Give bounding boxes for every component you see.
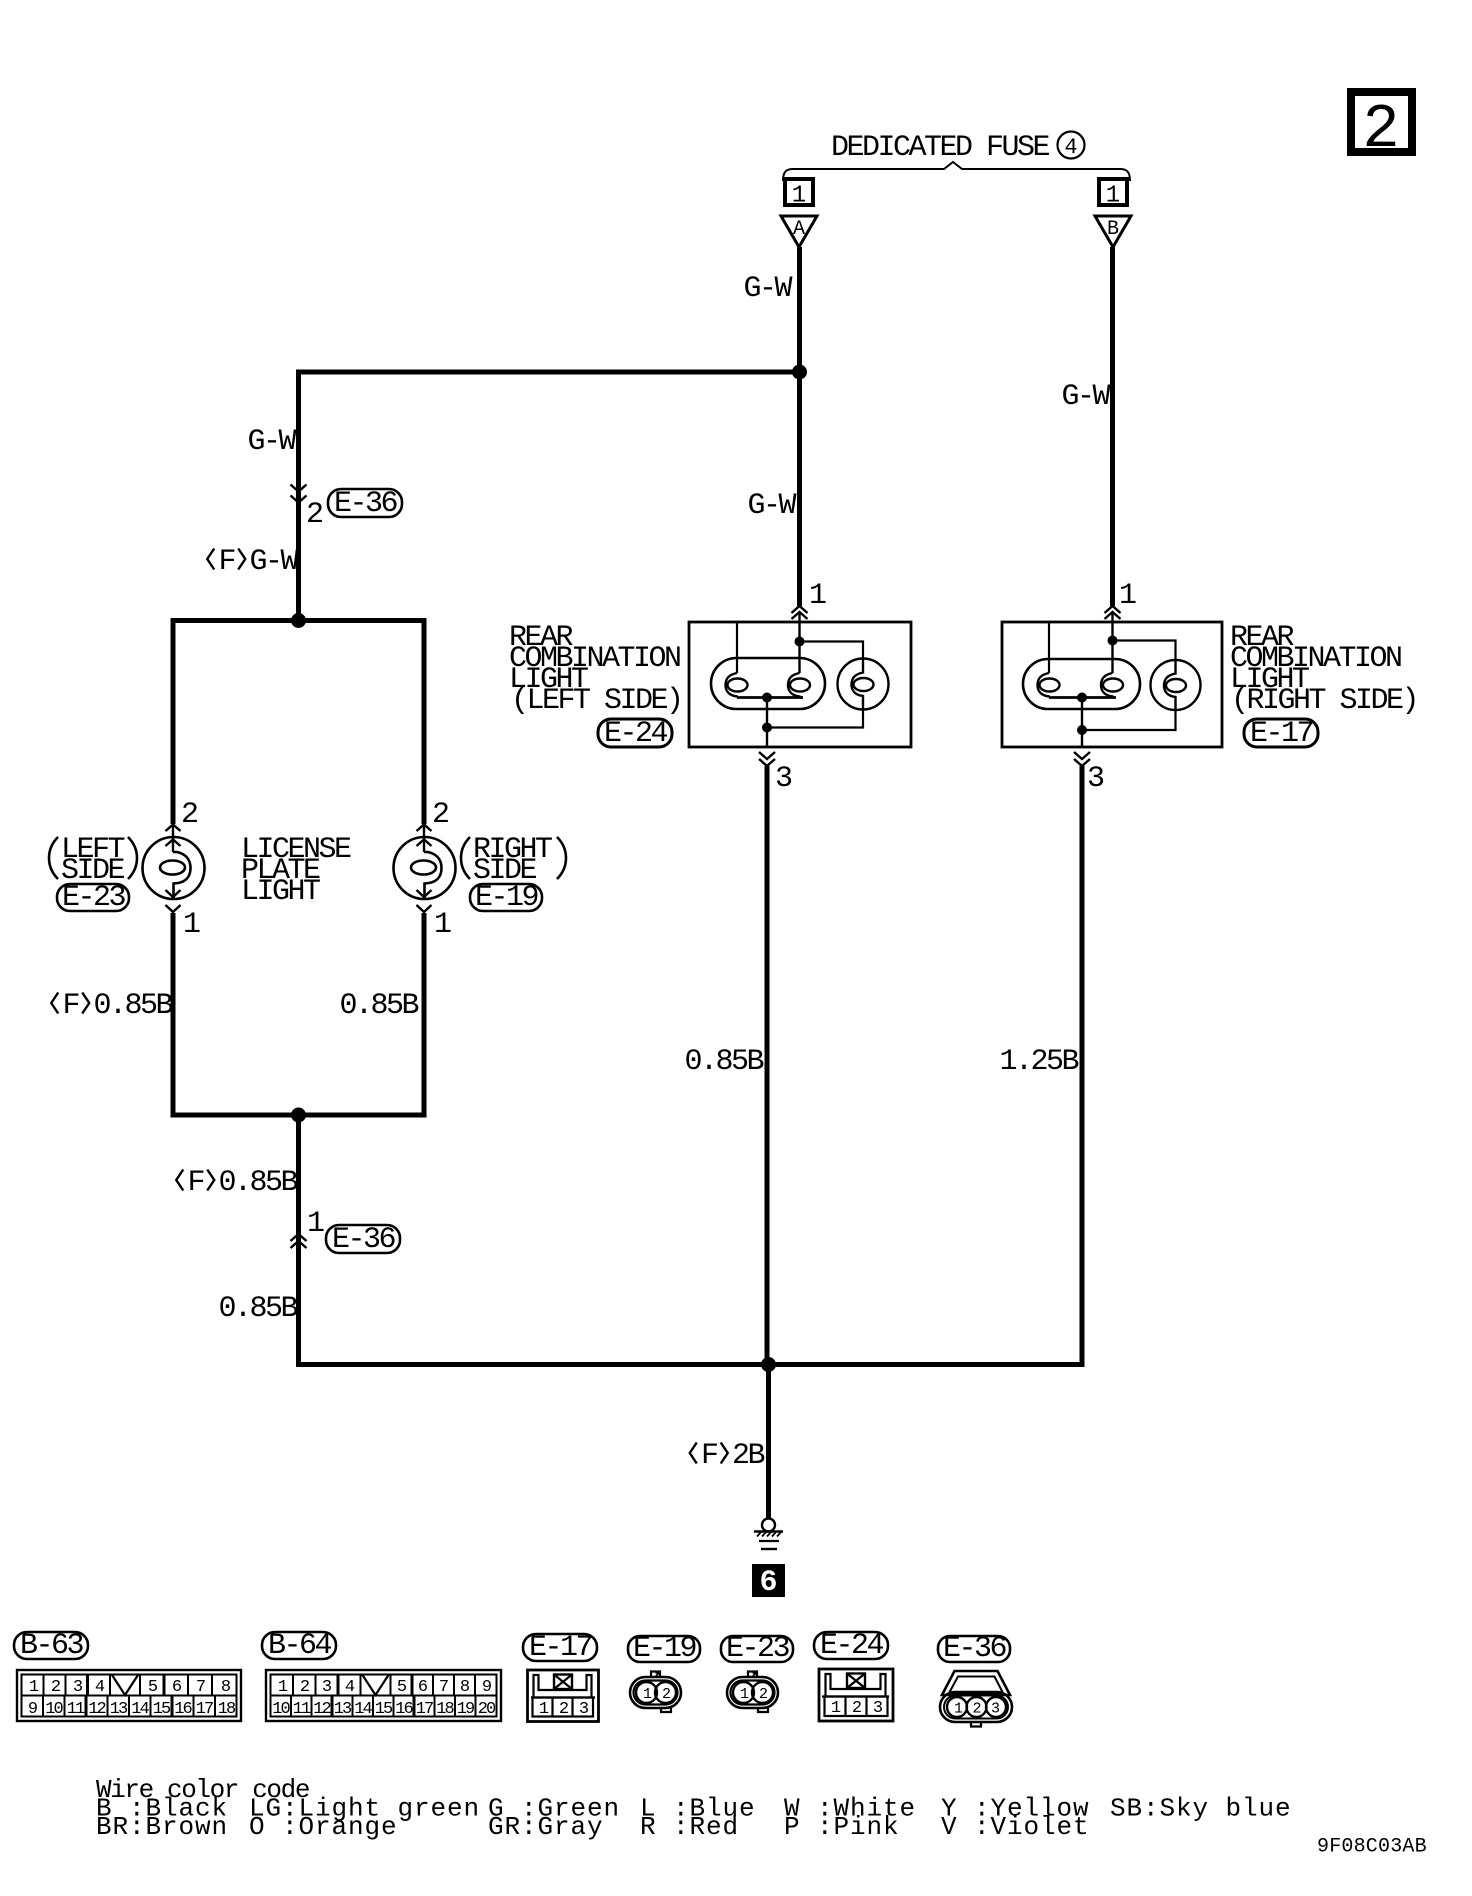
pin numbers B-64 row 2 xyxy=(272,1700,496,1719)
pin numbers E-17 body xyxy=(539,1700,589,1719)
svg-text:1: 1 xyxy=(434,908,451,942)
svg-text:16: 16 xyxy=(395,1700,413,1719)
svg-text:E-17: E-17 xyxy=(529,1631,592,1665)
svg-text:20: 20 xyxy=(478,1700,496,1719)
node junction loop bottom xyxy=(291,1108,306,1123)
svg-text:G-W: G-W xyxy=(1061,380,1110,414)
wire 0.85B rear left to bus xyxy=(765,766,770,1364)
fuse tap B terminal box 1 xyxy=(1099,179,1127,210)
wire label (F)0.85B left xyxy=(47,989,173,1023)
wire ground drop 2B xyxy=(766,1365,771,1520)
svg-text:2: 2 xyxy=(51,1678,60,1697)
label REAR COMBINATION LIGHT (LEFT SIDE) xyxy=(509,621,682,718)
svg-text:E-24: E-24 xyxy=(604,717,668,751)
svg-text:10: 10 xyxy=(272,1700,290,1719)
connector label E-36 (bottom) xyxy=(938,1632,1010,1666)
svg-text:7: 7 xyxy=(196,1678,205,1697)
wire bottom drop inside left box xyxy=(766,698,768,748)
svg-text:1: 1 xyxy=(1106,183,1120,210)
svg-text:A: A xyxy=(793,218,805,241)
dual filament lamp obround right box xyxy=(1023,659,1140,709)
svg-text:F G-W: F G-W xyxy=(203,545,299,579)
svg-text:18: 18 xyxy=(218,1700,236,1719)
label (LEFT SIDE) xyxy=(49,833,137,888)
wire license loop top edge xyxy=(171,618,427,623)
svg-text:E-36: E-36 xyxy=(332,1223,396,1257)
ground number box 6 xyxy=(752,1564,785,1600)
fuse tap B triangle xyxy=(1095,216,1131,247)
node inside left box xyxy=(795,637,805,647)
svg-text:17: 17 xyxy=(416,1700,433,1719)
svg-text:2: 2 xyxy=(759,1686,767,1703)
svg-text:0.85B: 0.85B xyxy=(339,989,418,1023)
wire loop right side lower xyxy=(422,913,427,1118)
connector body E-24 xyxy=(819,1669,893,1721)
svg-text:E-23: E-23 xyxy=(726,1632,790,1666)
connector body B-64 xyxy=(266,1670,501,1721)
svg-text:B-63: B-63 xyxy=(20,1629,84,1663)
wire 1.25B rear right to bus xyxy=(1080,766,1085,1367)
connector body E-36 xyxy=(940,1671,1012,1727)
connector label E-36 (top) xyxy=(328,487,402,521)
svg-text:B-64: B-64 xyxy=(268,1629,332,1663)
wire B vertical G-W from fuse to rear combination light right xyxy=(1110,247,1115,606)
connector label E-19 (bottom) xyxy=(628,1632,700,1666)
wire A vertical G-W from fuse to rear combination light left xyxy=(797,247,802,606)
connector E-36 pin 1 chevrons xyxy=(291,1234,307,1248)
pin numbers E-24 body xyxy=(831,1699,883,1718)
node junction ground bus xyxy=(761,1357,776,1372)
svg-text:O :Orange: O :Orange xyxy=(249,1812,398,1842)
wire from loop bottom to ground bus xyxy=(296,1113,301,1365)
pin 3 chevrons rear right xyxy=(1074,752,1090,766)
svg-text:13: 13 xyxy=(334,1700,352,1719)
svg-text:18: 18 xyxy=(436,1700,454,1719)
svg-text:2: 2 xyxy=(1362,94,1399,165)
svg-text:E-19: E-19 xyxy=(633,1632,696,1666)
svg-text:14: 14 xyxy=(354,1700,372,1719)
fuse tap A triangle xyxy=(781,216,817,247)
wire to tail lamp circle right box xyxy=(1113,641,1176,660)
wire loop left side upper xyxy=(171,618,176,824)
pin 1 chevrons rear left xyxy=(792,606,808,619)
wire horizontal branch to license plate circuit xyxy=(296,370,800,375)
svg-text:15: 15 xyxy=(375,1700,393,1719)
wire pin1 into right lamp xyxy=(1111,613,1113,673)
wire bulbs bottom bar left box xyxy=(737,696,803,699)
svg-text:(LEFT SIDE): (LEFT SIDE) xyxy=(511,684,682,718)
tail lamp circle left box xyxy=(838,659,889,710)
fuse tap A terminal box 1 xyxy=(785,179,813,210)
svg-text:2: 2 xyxy=(852,1699,861,1718)
node inside right box xyxy=(1108,636,1118,646)
svg-text:16: 16 xyxy=(174,1700,192,1719)
svg-text:V :Violet: V :Violet xyxy=(941,1812,1090,1842)
svg-text:6: 6 xyxy=(759,1566,777,1600)
svg-text:E-24: E-24 xyxy=(820,1629,884,1663)
svg-text:1: 1 xyxy=(809,579,826,613)
connector label E-24 (bottom) xyxy=(814,1629,888,1663)
pin 1 chevrons rear right xyxy=(1105,606,1121,619)
svg-text:2: 2 xyxy=(432,798,448,832)
svg-text:B: B xyxy=(1107,218,1119,241)
wire label (F)2B xyxy=(686,1439,765,1473)
svg-text:BR:Brown: BR:Brown xyxy=(96,1812,228,1842)
svg-text:2: 2 xyxy=(181,798,197,832)
svg-text:1.25B: 1.25B xyxy=(999,1045,1078,1079)
svg-text:11: 11 xyxy=(67,1700,85,1719)
svg-text:9F08C03AB: 9F08C03AB xyxy=(1317,1836,1427,1859)
svg-text:1: 1 xyxy=(792,183,806,210)
dual filament lamp obround left box xyxy=(711,658,825,709)
wire bulbs bottom bar right box xyxy=(1049,696,1116,699)
wire loop right side upper xyxy=(422,618,427,824)
svg-text:2: 2 xyxy=(972,1701,980,1718)
wire to tail lamp circle bottom left box xyxy=(767,709,863,728)
bulb left filament right box xyxy=(1038,673,1060,698)
ground symbol 6 xyxy=(754,1519,783,1550)
connector label E-23 (bottom) xyxy=(721,1632,793,1666)
svg-text:F 0.85B: F 0.85B xyxy=(172,1166,298,1200)
wire pin1 into left lamp xyxy=(798,613,800,673)
bulb right filament right box xyxy=(1101,673,1123,698)
wire stub from box top to left bulb right box xyxy=(1048,623,1050,673)
svg-text:GR:Gray: GR:Gray xyxy=(488,1812,604,1842)
label (RIGHT SIDE) xyxy=(461,833,566,888)
connector label E-19 xyxy=(470,881,542,915)
svg-text:G-W: G-W xyxy=(247,425,296,459)
bulb left filament xyxy=(726,673,748,698)
node junction loop top xyxy=(291,613,306,628)
wire color code legend xyxy=(96,1775,1292,1842)
svg-text:3: 3 xyxy=(775,762,792,796)
svg-text:2: 2 xyxy=(306,498,322,532)
wire label (F)G-W xyxy=(203,545,299,579)
connector label E-17 (bottom) xyxy=(523,1631,597,1665)
bulb right filament xyxy=(788,673,810,698)
pin numbers B-63 row 2 xyxy=(28,1700,236,1719)
connector label E-23 xyxy=(57,881,129,915)
svg-text:G-W: G-W xyxy=(747,489,796,523)
svg-text:P :Pink: P :Pink xyxy=(784,1812,900,1842)
svg-text:E-19: E-19 xyxy=(475,881,538,915)
connector body E-17 xyxy=(528,1670,599,1722)
node bottom inside right box xyxy=(1077,725,1087,735)
svg-text:DEDICATED FUSE: DEDICATED FUSE xyxy=(831,131,1050,165)
connector label E-17 xyxy=(1244,717,1318,751)
wire stub from box top to left bulb xyxy=(736,623,738,673)
pin numbers E-19 body xyxy=(643,1686,670,1703)
svg-text:F 0.85B: F 0.85B xyxy=(47,989,173,1023)
label LICENSE PLATE LIGHT xyxy=(241,833,351,909)
svg-text:2: 2 xyxy=(559,1700,568,1719)
rear combination light right box E-17 xyxy=(1002,622,1222,747)
connector E-36 pin 2 chevrons xyxy=(291,485,307,503)
svg-text:G-W: G-W xyxy=(743,272,792,306)
wire left branch vertical G-W xyxy=(296,370,301,621)
tail lamp circle right box xyxy=(1151,660,1201,710)
pin numbers B-63 row 1 xyxy=(29,1678,231,1697)
pin numbers E-23 body xyxy=(740,1686,767,1703)
fuse number circled 4 xyxy=(1058,132,1085,161)
connector label B-64 xyxy=(262,1629,336,1663)
svg-text:0.85B: 0.85B xyxy=(218,1292,297,1326)
label REAR COMBINATION LIGHT (RIGHT SIDE) xyxy=(1230,621,1417,718)
pin 3 chevrons rear left xyxy=(759,752,775,766)
license plate light bulb right E-19 xyxy=(394,824,456,912)
node bulbs bottom left box xyxy=(762,693,772,703)
svg-text:2: 2 xyxy=(300,1678,309,1697)
pin numbers E-36 body xyxy=(954,1701,1000,1718)
svg-text:12: 12 xyxy=(313,1700,330,1719)
svg-text:19: 19 xyxy=(457,1700,475,1719)
wire to tail lamp circle bottom right box xyxy=(1082,710,1176,730)
wire ground bus horizontal xyxy=(296,1362,1085,1367)
pin numbers B-64 row 1 xyxy=(278,1678,492,1697)
wire bottom drop inside right box xyxy=(1081,698,1083,748)
svg-text:13: 13 xyxy=(110,1700,128,1719)
svg-text:10: 10 xyxy=(45,1700,63,1719)
svg-text:17: 17 xyxy=(196,1700,213,1719)
wire label (F)0.85B bottom xyxy=(172,1166,298,1200)
svg-text:15: 15 xyxy=(153,1700,171,1719)
svg-text:1: 1 xyxy=(307,1207,324,1241)
svg-text:E-23: E-23 xyxy=(62,881,126,915)
rear combination light left box E-24 xyxy=(689,622,911,747)
connector body E-19 xyxy=(630,1672,681,1713)
svg-text:3: 3 xyxy=(1087,762,1104,796)
svg-text:4: 4 xyxy=(1064,135,1077,160)
svg-text:14: 14 xyxy=(131,1700,149,1719)
wire license loop bottom edge xyxy=(171,1113,427,1118)
node bottom inside left box xyxy=(762,723,772,733)
svg-text:11: 11 xyxy=(293,1700,311,1719)
svg-text:7: 7 xyxy=(439,1678,448,1697)
wire loop left side lower xyxy=(171,913,176,1118)
license plate light bulb left E-23 xyxy=(143,824,205,912)
page number box 2 xyxy=(1351,92,1412,165)
svg-text:E-17: E-17 xyxy=(1250,717,1313,751)
wire to tail lamp circle left box xyxy=(800,642,864,660)
node bulbs bottom right box xyxy=(1077,693,1087,703)
svg-text:1: 1 xyxy=(1119,579,1136,613)
brace under DEDICATED FUSE xyxy=(783,162,1130,181)
svg-text:0.85B: 0.85B xyxy=(684,1045,763,1079)
connector body E-23 xyxy=(727,1672,778,1713)
svg-text:1: 1 xyxy=(183,908,200,942)
connector label E-24 xyxy=(598,717,672,751)
svg-text:LIGHT: LIGHT xyxy=(241,875,320,909)
svg-text:E-36: E-36 xyxy=(334,487,398,521)
svg-text:2: 2 xyxy=(662,1686,670,1703)
svg-text:(RIGHT SIDE): (RIGHT SIDE) xyxy=(1231,684,1417,718)
connector body B-63 xyxy=(17,1670,241,1721)
connector label B-63 xyxy=(14,1629,88,1663)
node junction A branch xyxy=(792,365,807,380)
svg-text:E-36: E-36 xyxy=(943,1632,1007,1666)
connector label E-36 (bottom) xyxy=(326,1223,400,1257)
svg-text:12: 12 xyxy=(88,1700,105,1719)
svg-text:SB:Sky blue: SB:Sky blue xyxy=(1110,1794,1292,1824)
svg-text:R :Red: R :Red xyxy=(640,1812,739,1842)
